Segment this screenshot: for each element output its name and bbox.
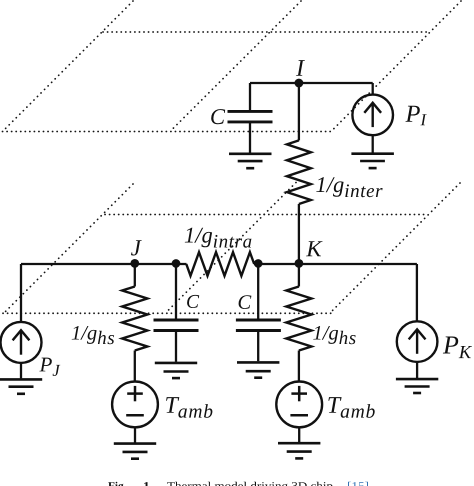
wire node I to resistor R_inter xyxy=(298,83,300,140)
P_J label xyxy=(39,358,60,376)
wire R_hs left to T_amb xyxy=(134,351,136,382)
layer2 left oblique edge (dotted) xyxy=(3,184,133,314)
wire P_J to ground xyxy=(20,363,22,379)
current source P_J xyxy=(1,322,42,363)
wire R_hs right to T_amb xyxy=(298,351,300,382)
node J label xyxy=(131,240,142,255)
wire top horizontal I xyxy=(250,82,373,84)
ground (P_K) xyxy=(396,379,438,393)
ground (T_amb right) xyxy=(278,443,320,458)
layer1 bottom edge (dotted) xyxy=(3,131,335,133)
capacitor C2 value label C xyxy=(187,295,199,308)
node junction right C xyxy=(254,259,263,268)
wire P_J drop xyxy=(20,264,22,322)
resistor R_intra 1/g_intra xyxy=(186,252,254,276)
R_hs left value label 1/g_hs xyxy=(72,326,114,344)
ground (C3) xyxy=(237,362,279,377)
R_hs right value label 1/g_hs xyxy=(313,326,355,344)
wire capacitor C1 drop xyxy=(249,83,251,110)
P_K label xyxy=(443,337,472,359)
wire T_amb right to ground xyxy=(298,427,300,442)
wire T_amb left to ground xyxy=(134,427,136,442)
node J xyxy=(130,259,139,268)
layer2 top edge (dotted) xyxy=(105,214,427,216)
figure caption (cropped) xyxy=(108,482,126,486)
T_amb left label xyxy=(166,397,212,418)
layer1 middle oblique edge (dotted) xyxy=(170,1,301,132)
capacitor C3 value label C xyxy=(239,295,252,309)
capacitor C1 xyxy=(228,111,273,122)
layer2 bottom edge (dotted) xyxy=(3,312,332,314)
wire C2 to ground xyxy=(175,332,177,362)
wire junction to capacitor C3 xyxy=(257,264,259,319)
voltage source T_amb right xyxy=(276,382,322,428)
wire C1 to ground xyxy=(249,123,251,153)
wire R_inter to node K xyxy=(298,204,300,264)
ground (C1) xyxy=(229,154,272,168)
wire P_I drop xyxy=(372,83,374,95)
R_intra value label 1/g_intra xyxy=(185,228,252,248)
layer1 right oblique edge (dotted) xyxy=(331,1,461,132)
wire P_K drop xyxy=(416,264,418,322)
current source P_I xyxy=(352,95,393,136)
wire P_K to ground xyxy=(416,362,418,378)
capacitor C2 xyxy=(154,320,199,331)
layer1 top edge (dotted) xyxy=(103,31,429,33)
node junction left C xyxy=(172,259,181,268)
P_I label xyxy=(405,106,426,126)
capacitor C3 xyxy=(236,320,281,331)
current source P_K xyxy=(397,321,438,362)
T_amb right label xyxy=(328,397,374,418)
wire P_I to ground xyxy=(372,135,374,152)
voltage source T_amb left xyxy=(112,382,158,428)
wire C3 to ground xyxy=(257,332,259,362)
resistor R_hs left 1/g_hs xyxy=(122,287,147,351)
ground (T_amb left) xyxy=(114,444,156,459)
layer2 right oblique edge (dotted) xyxy=(330,183,460,313)
ground (P_J) xyxy=(0,379,42,393)
ground (C2) xyxy=(155,363,197,378)
node I xyxy=(295,79,304,88)
wire junction to capacitor C2 xyxy=(175,264,177,319)
resistor R_inter 1/g_inter xyxy=(287,140,311,204)
layer1 left oblique edge (dotted) xyxy=(3,1,134,132)
node K label xyxy=(306,241,323,256)
node I label xyxy=(296,60,305,76)
wire node J to R_hs left xyxy=(134,264,136,287)
R_inter value label 1/g_inter xyxy=(316,177,382,197)
ground (P_I) xyxy=(351,154,394,168)
resistor R_hs right 1/g_hs xyxy=(286,287,311,351)
wire node K to R_hs right xyxy=(298,264,300,287)
capacitor C1 value label C xyxy=(211,109,225,124)
wire main horizontal left xyxy=(21,263,187,265)
wire main horizontal right xyxy=(254,263,417,265)
node K xyxy=(295,259,304,268)
layer2 middle oblique edge (dotted) xyxy=(166,183,297,314)
